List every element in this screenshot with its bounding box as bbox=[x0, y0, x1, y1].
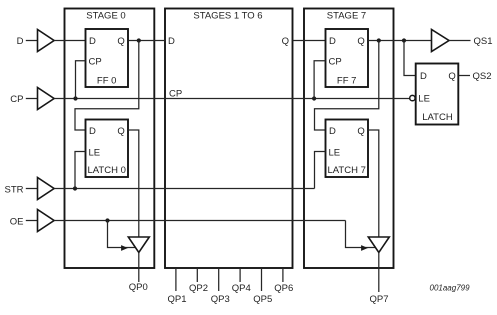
buffer OE input bbox=[38, 210, 55, 232]
svg-text:STAGE 7: STAGE 7 bbox=[327, 11, 366, 22]
svg-text:LE: LE bbox=[418, 93, 430, 104]
svg-text:FF 7: FF 7 bbox=[337, 76, 357, 87]
svg-text:STAGES 1 TO 6: STAGES 1 TO 6 bbox=[193, 11, 262, 22]
wire QP2 stub bbox=[196, 268, 198, 282]
svg-text:QS2: QS2 bbox=[473, 71, 492, 82]
svg-text:Q: Q bbox=[357, 126, 364, 137]
wire QP0 output bbox=[138, 253, 140, 283]
wire FF0 Q output bbox=[129, 40, 166, 42]
wire QS2 branch to latch D bbox=[404, 41, 416, 76]
3-state buffer stage 7 bbox=[368, 237, 389, 253]
arrowhead OE enable stage 0 bbox=[121, 245, 128, 251]
svg-text:QP3: QP3 bbox=[211, 294, 230, 305]
wire D to FF0 bbox=[54, 40, 86, 42]
node FF0 Q junction bbox=[137, 38, 141, 42]
svg-text:QP1: QP1 bbox=[167, 294, 186, 305]
svg-text:LATCH 7: LATCH 7 bbox=[328, 165, 366, 176]
svg-text:QP0: QP0 bbox=[129, 282, 148, 293]
stage 7 block bbox=[304, 9, 394, 269]
wire OE tap to buffer enable bbox=[108, 221, 136, 248]
svg-text:001aag799: 001aag799 bbox=[430, 283, 471, 292]
wire QS1 bbox=[449, 40, 471, 42]
wire LATCH0 Q to output buffer bbox=[128, 130, 139, 237]
inversion bubble LATCH LE bbox=[410, 95, 415, 100]
wire QS2 output bbox=[459, 75, 471, 77]
svg-text:CP: CP bbox=[89, 56, 102, 67]
node FF7 Q junction bbox=[377, 38, 381, 42]
wire stages16 Q to FF7 D bbox=[293, 40, 326, 42]
wire CP bus bbox=[54, 98, 409, 100]
latch LATCH QS2 bbox=[416, 64, 459, 125]
3-state buffer stage 0 bbox=[128, 237, 149, 253]
node QS2 branch junction bbox=[402, 38, 406, 42]
flip-flop FF0 bbox=[86, 29, 129, 87]
wire QP3 stub bbox=[218, 268, 220, 291]
svg-text:STR: STR bbox=[5, 185, 24, 196]
buffer CP input bbox=[38, 88, 55, 110]
wire STR stub bbox=[26, 188, 38, 190]
svg-text:D: D bbox=[17, 36, 24, 47]
wire CP stub bbox=[26, 98, 38, 100]
wire FF0 Q feedback to latch D bbox=[75, 41, 139, 131]
svg-text:Q: Q bbox=[117, 126, 124, 137]
wire CP tap to FF7 bbox=[314, 61, 325, 99]
svg-text:QP6: QP6 bbox=[274, 283, 293, 294]
node STR tap stage 0 bbox=[73, 186, 77, 190]
wire QP1 stub bbox=[175, 268, 177, 291]
wire D stub bbox=[26, 40, 38, 42]
stages 1 to 6 block bbox=[165, 9, 293, 269]
svg-text:D: D bbox=[420, 71, 427, 82]
svg-text:QP4: QP4 bbox=[232, 283, 251, 294]
wire FF7 Q feedback to latch D bbox=[315, 41, 379, 131]
svg-text:D: D bbox=[168, 36, 175, 47]
wire STR to LATCH7 LE bbox=[315, 152, 326, 189]
buffer D input bbox=[38, 30, 55, 52]
stage 0 block bbox=[65, 9, 155, 269]
wire OE stub bbox=[26, 220, 38, 222]
wire FF7 Q output to QS1 buffer bbox=[368, 40, 432, 42]
svg-text:LATCH: LATCH bbox=[422, 112, 453, 123]
arrowhead OE enable stage 7 bbox=[361, 245, 368, 251]
svg-text:CP: CP bbox=[10, 94, 23, 105]
wire OE bus bbox=[54, 220, 346, 222]
svg-text:QP5: QP5 bbox=[253, 294, 272, 305]
svg-text:Q: Q bbox=[117, 36, 124, 47]
svg-text:LATCH 0: LATCH 0 bbox=[88, 165, 126, 176]
wire CP tap to FF0 bbox=[76, 61, 86, 99]
flip-flop FF7 bbox=[326, 29, 369, 87]
svg-text:STAGE 0: STAGE 0 bbox=[86, 11, 125, 22]
wire QP7 output bbox=[378, 253, 380, 293]
svg-text:Q: Q bbox=[357, 36, 364, 47]
wire QP6 stub bbox=[282, 268, 284, 282]
svg-text:D: D bbox=[329, 126, 336, 137]
node CP tap stage 0 bbox=[73, 96, 77, 100]
wire LATCH7 Q to output buffer bbox=[368, 130, 379, 237]
svg-text:FF 0: FF 0 bbox=[97, 76, 117, 87]
svg-text:LE: LE bbox=[89, 148, 101, 159]
latch LATCH 7 bbox=[326, 120, 369, 178]
wire STR bus bbox=[54, 188, 315, 190]
svg-text:D: D bbox=[89, 36, 96, 47]
svg-text:CP: CP bbox=[169, 89, 182, 100]
buffer STR input bbox=[38, 178, 55, 200]
svg-text:CP: CP bbox=[329, 56, 342, 67]
svg-text:QP2: QP2 bbox=[189, 283, 208, 294]
svg-text:LE: LE bbox=[329, 148, 341, 159]
wire OE to stage 7 buffer enable bbox=[346, 221, 376, 248]
node OE tap stage 0 bbox=[105, 218, 109, 222]
svg-text:Q: Q bbox=[282, 36, 289, 47]
svg-text:OE: OE bbox=[10, 217, 24, 228]
wire QP5 stub bbox=[261, 268, 263, 291]
wire QP4 stub bbox=[239, 268, 241, 282]
svg-text:D: D bbox=[89, 126, 96, 137]
node CP tap stage 7 bbox=[312, 96, 316, 100]
wire STR tap to LATCH0 LE bbox=[75, 152, 86, 189]
svg-text:D: D bbox=[329, 36, 336, 47]
buffer QS1 output bbox=[432, 30, 450, 52]
svg-text:Q: Q bbox=[448, 71, 455, 82]
svg-text:QS1: QS1 bbox=[474, 36, 493, 47]
svg-text:QP7: QP7 bbox=[369, 294, 388, 305]
latch LATCH 0 bbox=[86, 120, 129, 178]
